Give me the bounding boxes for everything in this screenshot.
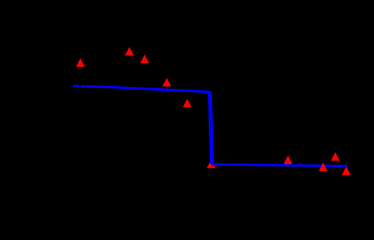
- marker 1: [76, 58, 85, 67]
- model curve: lower branch: [212, 164, 347, 166]
- marker 4: [162, 78, 171, 87]
- data markers: red triangles: [76, 47, 351, 175]
- marker 10: [342, 167, 351, 176]
- marker 5: [183, 99, 192, 108]
- marker 2: [125, 47, 134, 56]
- model curve: leading dash: [73, 85, 79, 88]
- marker 9: [331, 152, 340, 161]
- marker 8: [319, 163, 328, 172]
- data marker: red triangle under curve at step base: [207, 160, 216, 169]
- marker 7: [284, 155, 293, 164]
- model curve: vertical drop: [210, 91, 212, 164]
- model curve: upper branch: [81, 86, 209, 92]
- marker 3: [140, 55, 149, 64]
